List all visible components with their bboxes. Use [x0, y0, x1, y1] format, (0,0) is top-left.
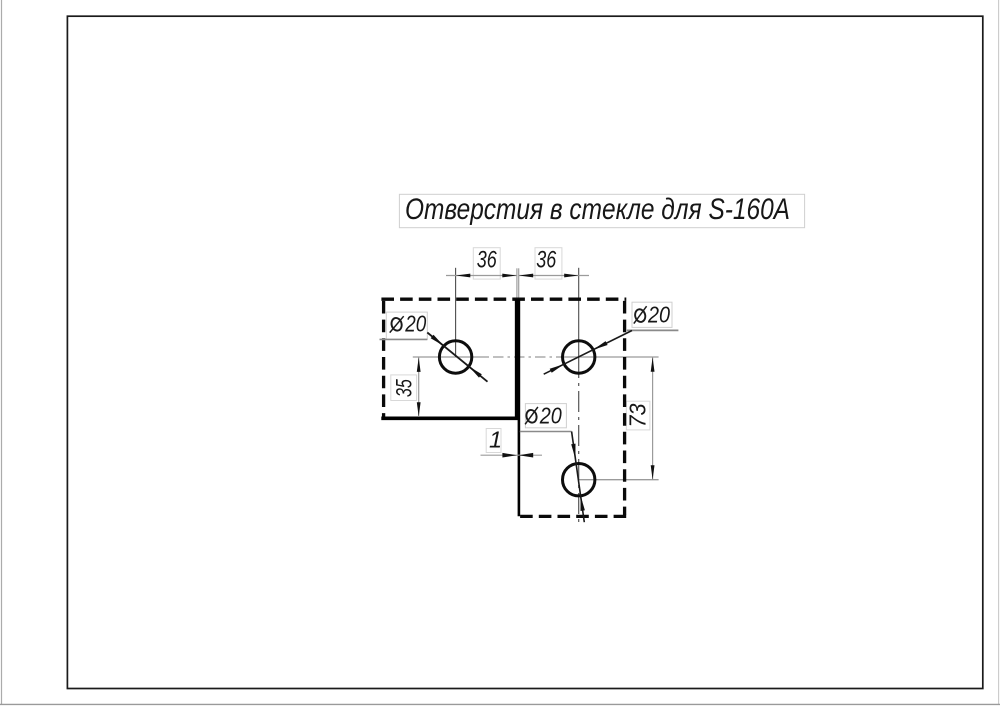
label box 36 left	[473, 248, 500, 279]
page right edge line	[998, 0, 1000, 704]
dimension line 35	[418, 357, 420, 417]
svg-text:1: 1	[489, 427, 502, 453]
label box dia20 bottom	[525, 404, 566, 428]
glass pane top dashed edge	[381, 298, 626, 301]
arrows 36 right dim	[519, 274, 579, 278]
leader diagonal dia20 top-right	[544, 331, 632, 375]
label box 36 right	[535, 248, 562, 279]
hole 2 circle	[563, 341, 595, 373]
leader shelf dia20 top-right	[627, 329, 679, 331]
centerline vertical hole 1	[455, 268, 457, 357]
dia symbol top-right ellipse	[634, 306, 647, 323]
arrows leader dia20 bottom	[571, 444, 585, 511]
page bottom edge line	[0, 703, 1000, 705]
centerline horizontal dash-dot middle part	[487, 356, 561, 358]
leader shelf dia20 bottom	[520, 431, 572, 433]
centerline horizontal solid right part	[560, 356, 659, 358]
label box dia20 top-right	[632, 302, 672, 327]
centerline horizontal through holes 1-2 solid left part	[413, 356, 487, 358]
page left edge line	[1, 0, 3, 704]
svg-text:35: 35	[392, 379, 417, 398]
gap extension line left	[516, 268, 518, 298]
svg-text:36: 36	[536, 247, 556, 274]
dimension line 36 right	[519, 275, 589, 277]
title box	[399, 194, 804, 227]
dimension line 36 left	[446, 275, 517, 277]
label box 73	[626, 401, 650, 430]
label box dia20 left	[386, 312, 427, 339]
dia symbol left ellipse	[390, 316, 404, 332]
gap extension line right	[518, 268, 520, 298]
svg-text:73: 73	[625, 403, 651, 427]
arrows 73 dim	[651, 357, 655, 480]
arrows leader dia20 left	[431, 335, 482, 378]
leader diagonal dia20 left	[427, 333, 487, 382]
right pane bottom dashed edge	[518, 515, 627, 518]
extension line right of bottom hole	[579, 479, 659, 481]
arrows 36 left dim	[456, 274, 517, 278]
svg-text:36: 36	[477, 247, 497, 274]
svg-text:20: 20	[539, 402, 562, 428]
hole 3 circle	[563, 464, 595, 496]
centerline vertical dash-dot to hole 3	[578, 357, 580, 526]
svg-text:20: 20	[404, 310, 426, 336]
dimension line 1	[481, 454, 543, 456]
leader shelf dia20 left	[380, 338, 428, 340]
leader diagonal dia20 bottom	[572, 432, 585, 523]
left pane right thick edge	[515, 299, 519, 418]
hole 1 circle	[439, 341, 471, 373]
svg-text:Отверстия в стекле для S-160A: Отверстия в стекле для S-160A	[405, 193, 790, 226]
arrows leader dia20 top-right	[550, 341, 608, 373]
arrows 35 dim	[417, 357, 421, 416]
svg-text:20: 20	[647, 302, 670, 328]
dia symbol bottom ellipse	[525, 407, 538, 424]
left pane left dashed edge	[382, 301, 385, 418]
dimension line 73	[652, 357, 654, 480]
centerline vertical hole 2	[578, 268, 580, 357]
label box 35	[391, 375, 417, 401]
label box 1	[486, 429, 501, 453]
arrows 1 dim	[502, 453, 533, 458]
left pane bottom solid edge	[381, 416, 518, 420]
right pane right dashed edge	[623, 301, 626, 515]
right pane left solid edge	[518, 299, 521, 516]
